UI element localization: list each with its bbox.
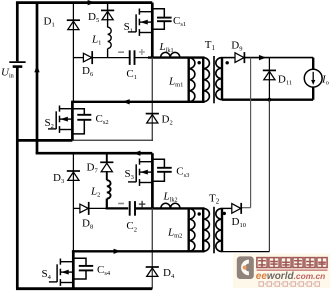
svg-text:eeworld.com.cn: eeworld.com.cn: [256, 271, 325, 282]
